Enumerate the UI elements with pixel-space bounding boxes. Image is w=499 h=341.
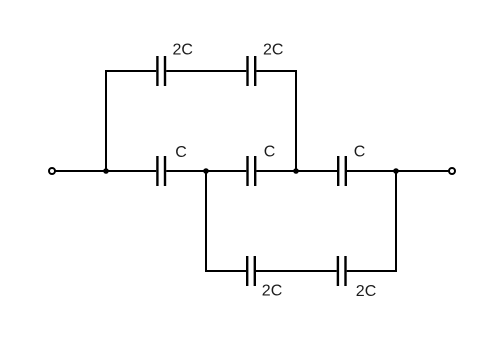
terminal left (input port circle)	[49, 168, 55, 174]
capacitor C2 C (middle-center) plates	[248, 156, 256, 186]
capacitor C5 2C (top-right) plates	[248, 56, 256, 86]
svg-text:C: C	[264, 144, 276, 161]
svg-text:2C: 2C	[173, 42, 193, 59]
wire: bottom row to riser up to node D	[347, 171, 396, 271]
svg-text:C: C	[354, 144, 366, 161]
capacitor C3 C (middle-right) plates	[338, 156, 346, 186]
capacitor C1 C (middle-left) plates	[157, 156, 165, 186]
terminal right (output port circle)	[449, 168, 455, 174]
wire: bottom row between 2C caps	[256, 270, 337, 272]
wire: top row between 2C caps	[166, 70, 246, 72]
svg-text:2C: 2C	[356, 283, 376, 300]
capacitor C7 2C (bottom-right) plates	[338, 256, 346, 286]
wire: top row to right riser down to node C	[256, 71, 296, 171]
wire: middle row C1 to C2 through node B	[166, 170, 246, 172]
wire: middle row C3 to right terminal through node D	[347, 170, 449, 172]
wire: left terminal to capacitor C1 (middle row, through node A)	[56, 170, 157, 172]
wire: node B riser down and bottom row to capacitor 2C (bottom-left)	[206, 171, 246, 271]
wire: middle row C2 to C3 through node C	[256, 170, 337, 172]
node D junction dot	[393, 168, 399, 174]
capacitor C4 2C (top-left) plates	[157, 56, 165, 86]
node A junction dot	[103, 168, 109, 174]
wire: riser node A up and top row to capacitor 2C (top-left)	[106, 71, 156, 171]
node B junction dot	[203, 168, 209, 174]
svg-text:C: C	[175, 144, 187, 161]
svg-text:2C: 2C	[263, 42, 283, 59]
node C junction dot	[293, 168, 299, 174]
capacitor C6 2C (bottom-left) plates	[247, 256, 255, 286]
svg-text:2C: 2C	[262, 282, 282, 299]
